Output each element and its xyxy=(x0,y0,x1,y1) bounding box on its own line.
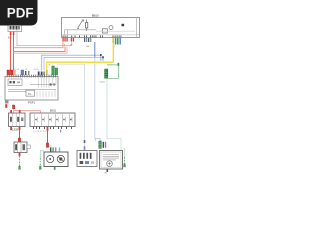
wire blue stub hooks xyxy=(101,55,103,61)
component 1C07 battery feed under PDF badge xyxy=(8,25,22,32)
bus line inside BB10 xyxy=(65,29,97,31)
svg-text:40 36: 40 36 xyxy=(14,69,20,71)
switch symbol inside BB10 xyxy=(78,21,82,28)
PDF badge xyxy=(0,0,38,26)
pins red below 1320 xyxy=(10,127,12,130)
green sensor circuit right xyxy=(100,63,120,84)
ecu box BSI1 xyxy=(30,113,75,127)
connector blob blue at PSF1 top xyxy=(21,70,24,75)
wire red 3 to BB10 pin xyxy=(14,47,68,54)
ground stub below pump xyxy=(54,167,56,170)
pins PSF1 bottom-left xyxy=(5,101,8,108)
ground M1 xyxy=(18,166,21,170)
svg-text:BSI1: BSI1 xyxy=(50,108,57,112)
connector caps dark blue xyxy=(38,72,40,76)
svg-text:BB10: BB10 xyxy=(92,14,99,18)
dark component inside BB10 xyxy=(122,24,125,26)
fuse sub-box inside PSF1 xyxy=(8,79,22,86)
wire red 2 to BB10 pin xyxy=(14,47,66,52)
connector green above heater xyxy=(99,141,102,144)
wire yellow BB10 to PSF1 xyxy=(47,43,114,70)
svg-text:PL: PL xyxy=(28,92,32,96)
pins below heater xyxy=(107,169,109,172)
svg-text:2 4 6 8 10 12 14: 2 4 6 8 10 12 14 xyxy=(33,131,48,133)
internal wires PSF1 xyxy=(39,77,57,88)
svg-text:20 16: 20 16 xyxy=(34,69,40,71)
connector blobs green at PSF1 top xyxy=(52,66,55,75)
pins red above relay box 1320 xyxy=(10,110,12,113)
relay box inside BB10 xyxy=(103,29,108,33)
wire green dashed to ground left xyxy=(19,156,21,166)
pump unit 8007 xyxy=(44,152,68,167)
wire gray component to BB10 pin xyxy=(17,30,71,46)
wire red vertical left x10.5 xyxy=(10,35,12,71)
pin ticks PSF1 top xyxy=(7,75,56,78)
svg-text:PDF: PDF xyxy=(7,6,34,21)
wire red BSI1 to pump xyxy=(47,131,49,143)
pin red below motor xyxy=(19,153,21,156)
wire red 1 to BB10 pin xyxy=(14,42,64,48)
wire blue long BB10 down xyxy=(94,42,96,58)
pin ticks BB10 bottom row xyxy=(63,35,122,37)
motor component 1C10 xyxy=(14,142,30,153)
wire lightblue 1 PSF1 to hook xyxy=(42,55,101,70)
heater control unit 8080 xyxy=(100,151,123,170)
resistor pack relay plate xyxy=(77,151,97,167)
fuse box BB10 xyxy=(62,14,140,38)
pins below BSI1 xyxy=(33,127,72,129)
svg-text:BA: BA xyxy=(8,35,12,39)
relay sub-box PL inside PSF1 xyxy=(26,90,35,96)
svg-text:1320: 1320 xyxy=(12,127,19,131)
wire faint PSF1 to relay plate xyxy=(57,64,85,150)
fuse symbol inside BB10 xyxy=(86,23,88,29)
wire red 1320 drop xyxy=(19,130,21,138)
pin marks red under component xyxy=(8,32,14,40)
connector blobs red at PSF1 top xyxy=(7,70,10,75)
relay box 1320 xyxy=(9,113,26,127)
wire red vertical x13.5 xyxy=(13,35,15,71)
BSI block PSF1 xyxy=(5,75,58,100)
wire lightblue 2 PSF1 to hook xyxy=(44,58,103,71)
connector marks on faint wire xyxy=(84,140,86,143)
wire pink link PSF1 to BSI1 xyxy=(14,109,41,114)
wire teal sensor to heater xyxy=(107,79,121,152)
connector red on link wire xyxy=(13,105,15,109)
pins red under BB10 left xyxy=(62,38,74,46)
ground M3 right xyxy=(123,148,126,167)
svg-text:PSF1: PSF1 xyxy=(28,101,35,105)
pins green/yellow under BB10 right xyxy=(112,38,121,49)
ground M2 xyxy=(39,166,42,170)
connector cap yellow xyxy=(46,70,48,75)
pin red below BSI1 xyxy=(47,127,49,131)
pins dark under BB10 mid xyxy=(84,38,91,48)
connector red above pump xyxy=(46,143,48,147)
connector red above motor xyxy=(18,138,20,142)
wire green ground pump left xyxy=(40,151,44,158)
pins above pump xyxy=(50,147,51,152)
svg-text:C001: C001 xyxy=(100,81,106,83)
circle symbol inside BB10 xyxy=(109,26,113,30)
